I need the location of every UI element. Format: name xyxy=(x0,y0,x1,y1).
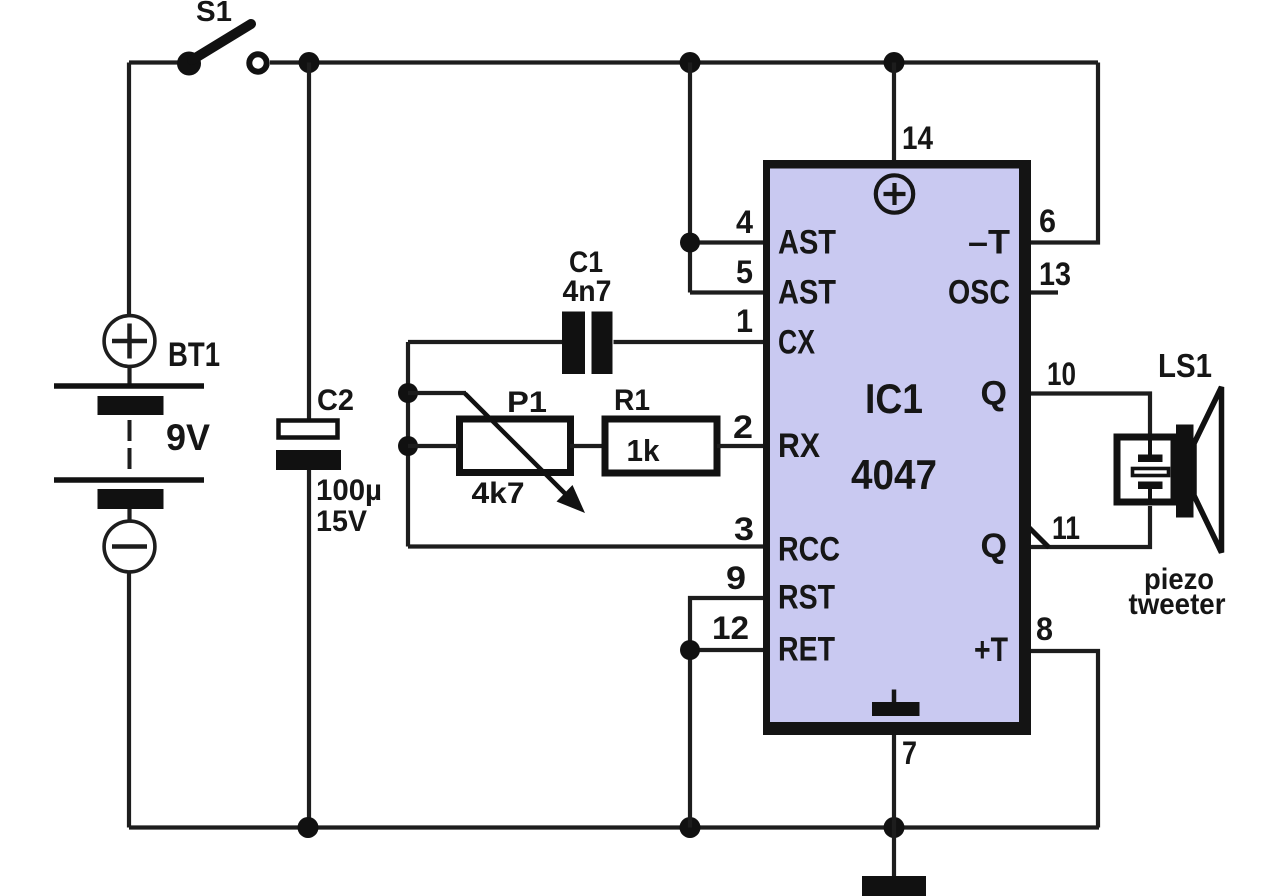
wire AST loop (pins 4,5) xyxy=(690,63,763,293)
IC1 plus supply symbol xyxy=(876,175,913,212)
node bottom rail at pin 7 xyxy=(884,817,905,838)
wire pin 11 to LS1 xyxy=(1031,506,1150,547)
wire pin 6 to top rail xyxy=(1031,63,1098,243)
svg-text:4047: 4047 xyxy=(851,451,937,498)
node top-left (C2 branch) xyxy=(299,52,320,73)
svg-text:5: 5 xyxy=(736,254,753,290)
wire pin 7 to ground xyxy=(892,735,896,876)
pin number labels xyxy=(712,120,1080,771)
wire top rail xyxy=(129,60,1098,64)
svg-text:P1: P1 xyxy=(507,386,547,419)
wire bottom loop to pin 3 xyxy=(408,544,763,548)
svg-text:C2: C2 xyxy=(317,384,354,417)
wire pin 10 to LS1 xyxy=(1031,394,1150,436)
node pin12 junction xyxy=(680,640,700,660)
node top rail pin14 branch xyxy=(884,52,905,73)
svg-text:RX: RX xyxy=(778,427,820,465)
svg-text:8: 8 xyxy=(1036,611,1053,647)
wire RST/RET loop (pins 9,12) xyxy=(690,598,763,828)
svg-text:CX: CX xyxy=(778,324,815,362)
svg-text:11: 11 xyxy=(1052,510,1080,546)
svg-text:7: 7 xyxy=(902,735,917,771)
IC1 name/value xyxy=(851,375,937,498)
svg-text:12: 12 xyxy=(712,610,749,646)
loudspeaker LS1 piezo tweeter xyxy=(1117,347,1226,621)
capacitor C1 xyxy=(408,246,763,374)
IC IC1 4047 body xyxy=(763,160,1031,735)
capacitor C2 xyxy=(276,63,382,828)
wire pin 13 stub xyxy=(1031,290,1058,294)
svg-text:6: 6 xyxy=(1039,203,1056,239)
svg-text:OSC: OSC xyxy=(948,274,1010,312)
svg-text:10: 10 xyxy=(1047,356,1076,392)
potentiometer P1 xyxy=(408,386,605,513)
svg-text:Q: Q xyxy=(981,527,1007,565)
svg-text:13: 13 xyxy=(1039,256,1071,292)
svg-text:R1: R1 xyxy=(614,384,650,417)
svg-text:15V: 15V xyxy=(316,505,367,538)
svg-text:AST: AST xyxy=(778,274,836,312)
node P1 left junction xyxy=(398,436,418,456)
wire left rail (battery branch) xyxy=(127,63,131,828)
svg-text:9V: 9V xyxy=(166,417,210,458)
node bottom rail at RET loop xyxy=(680,817,701,838)
wire pin 14 supply xyxy=(892,63,896,162)
svg-text:RET: RET xyxy=(778,631,835,669)
svg-text:IC1: IC1 xyxy=(865,375,923,422)
svg-text:Q: Q xyxy=(981,375,1007,413)
svg-text:BT1: BT1 xyxy=(168,336,220,374)
pin 11 inversion slash xyxy=(1021,520,1049,548)
svg-text:1k: 1k xyxy=(627,433,661,468)
svg-text:RST: RST xyxy=(778,579,835,617)
node wiper junction xyxy=(398,383,418,403)
resistor R1 xyxy=(605,384,763,473)
svg-text:+T: +T xyxy=(974,631,1008,669)
battery BT1 xyxy=(54,316,220,572)
svg-text:4n7: 4n7 xyxy=(563,275,612,308)
node pin4 junction xyxy=(680,233,700,253)
svg-text:14: 14 xyxy=(902,120,933,156)
svg-text:LS1: LS1 xyxy=(1158,347,1212,384)
svg-text:4k7: 4k7 xyxy=(472,477,525,510)
wire left loop vertical (P1 network) xyxy=(406,342,410,547)
svg-text:1: 1 xyxy=(736,303,753,339)
svg-text:3: 3 xyxy=(734,511,754,547)
svg-text:S1: S1 xyxy=(196,0,232,28)
svg-text:4: 4 xyxy=(736,204,753,240)
svg-text:2: 2 xyxy=(733,409,753,445)
IC1 labels xyxy=(778,224,1010,670)
ground xyxy=(862,876,926,896)
switch S1 xyxy=(177,0,267,76)
node bottom rail at C2 xyxy=(298,817,319,838)
wire pin 8 to bottom rail xyxy=(1031,651,1098,828)
svg-text:–T: –T xyxy=(968,224,1010,262)
svg-text:tweeter: tweeter xyxy=(1129,588,1226,621)
svg-text:RCC: RCC xyxy=(778,531,840,569)
svg-text:9: 9 xyxy=(726,560,746,596)
IC1 internal ground symbol xyxy=(872,690,920,717)
node top rail AST branch xyxy=(680,52,701,73)
svg-text:100µ: 100µ xyxy=(316,474,382,507)
wire bottom rail xyxy=(129,825,1099,829)
svg-text:AST: AST xyxy=(778,224,836,262)
